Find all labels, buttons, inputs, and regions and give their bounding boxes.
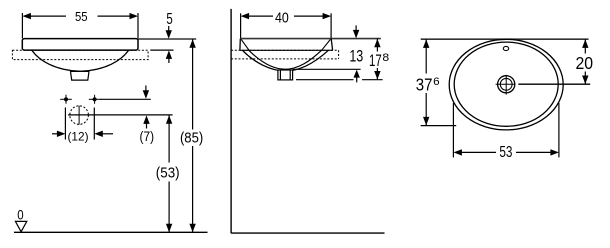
svg-text:17: 17 (369, 51, 382, 70)
svg-text:(7): (7) (140, 129, 155, 144)
svg-text:20: 20 (576, 53, 594, 73)
svg-text:5: 5 (166, 11, 172, 28)
svg-text:37: 37 (416, 75, 433, 95)
svg-text:8: 8 (382, 52, 389, 64)
svg-text:13: 13 (349, 47, 363, 65)
svg-text:55: 55 (75, 9, 88, 24)
svg-text:0: 0 (17, 206, 24, 222)
svg-text:(53): (53) (156, 166, 180, 182)
svg-text:40: 40 (275, 9, 289, 26)
svg-text:6: 6 (433, 76, 440, 88)
svg-text:(12): (12) (68, 129, 89, 143)
svg-text:(85): (85) (180, 131, 203, 147)
svg-text:53: 53 (499, 144, 512, 161)
